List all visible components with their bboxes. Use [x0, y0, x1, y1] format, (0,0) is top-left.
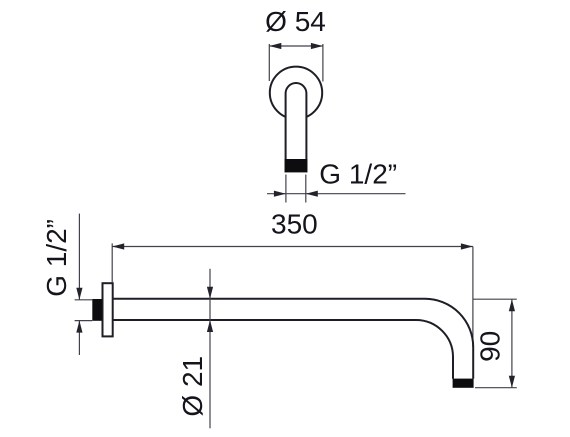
- 90 dimension vertical line: [511, 299, 513, 388]
- dimension line G 1/2 (top view): [267, 193, 406, 195]
- extension line nipple bottom: [75, 320, 93, 322]
- 90 dimension bottom extension line: [475, 387, 517, 389]
- arrowhead pointing left at tube right edge: [306, 191, 318, 197]
- Ø21 dimension line upper part: [209, 269, 211, 320]
- arrowhead pointing down at tube top: [207, 287, 213, 299]
- svg-text:Ø 54: Ø 54: [265, 6, 326, 37]
- extension line right (Ø54): [322, 44, 324, 82]
- flange circle Ø54: [270, 67, 322, 119]
- arrowhead pointing up at nipple bottom: [76, 321, 82, 333]
- arrowhead pointing right (350): [461, 243, 473, 249]
- svg-text:350: 350: [271, 208, 318, 239]
- arrowhead pointing left (350): [112, 243, 124, 249]
- threaded nipple G 1/2 (black): [92, 299, 102, 321]
- extension line right (G 1/2 top): [305, 175, 307, 203]
- arrowhead right (Ø54): [311, 43, 323, 49]
- extension line left (G 1/2 top): [285, 175, 287, 203]
- arrowhead pointing up (90): [509, 299, 515, 311]
- svg-text:G 1/2”: G 1/2”: [319, 159, 397, 190]
- Ø21 dimension line lower part: [209, 320, 211, 428]
- arrowhead pointing right at tube left edge: [274, 191, 286, 197]
- dimension line Ø54: [269, 45, 323, 47]
- G 1/2 left dimension upper line: [78, 214, 80, 300]
- thread end (black, top view): [285, 159, 308, 172]
- extension line at flange face (350 left): [111, 243, 113, 282]
- svg-text:90: 90: [474, 331, 505, 362]
- 90 dimension top extension line: [474, 298, 517, 300]
- svg-text:G 1/2”: G 1/2”: [41, 219, 72, 297]
- G 1/2 left dimension lower line: [78, 321, 80, 355]
- arrowhead left (Ø54): [269, 43, 281, 49]
- thread end (black, side view): [453, 379, 474, 388]
- extension line left (Ø54): [268, 44, 270, 81]
- dimension line 350: [112, 246, 473, 248]
- arrowhead pointing down (90): [509, 376, 515, 388]
- extension line right (350): [472, 247, 474, 348]
- arrowhead pointing up at tube bottom: [207, 320, 213, 332]
- arm tube (side view with 90° bend): [113, 299, 473, 379]
- svg-text:Ø 21: Ø 21: [177, 356, 208, 417]
- wall flange (side view): [103, 283, 113, 336]
- extension line nipple top: [75, 299, 93, 301]
- arrowhead pointing down at nipple top: [76, 288, 82, 300]
- arm tube (front view, white fill occludes circle): [286, 83, 307, 172]
